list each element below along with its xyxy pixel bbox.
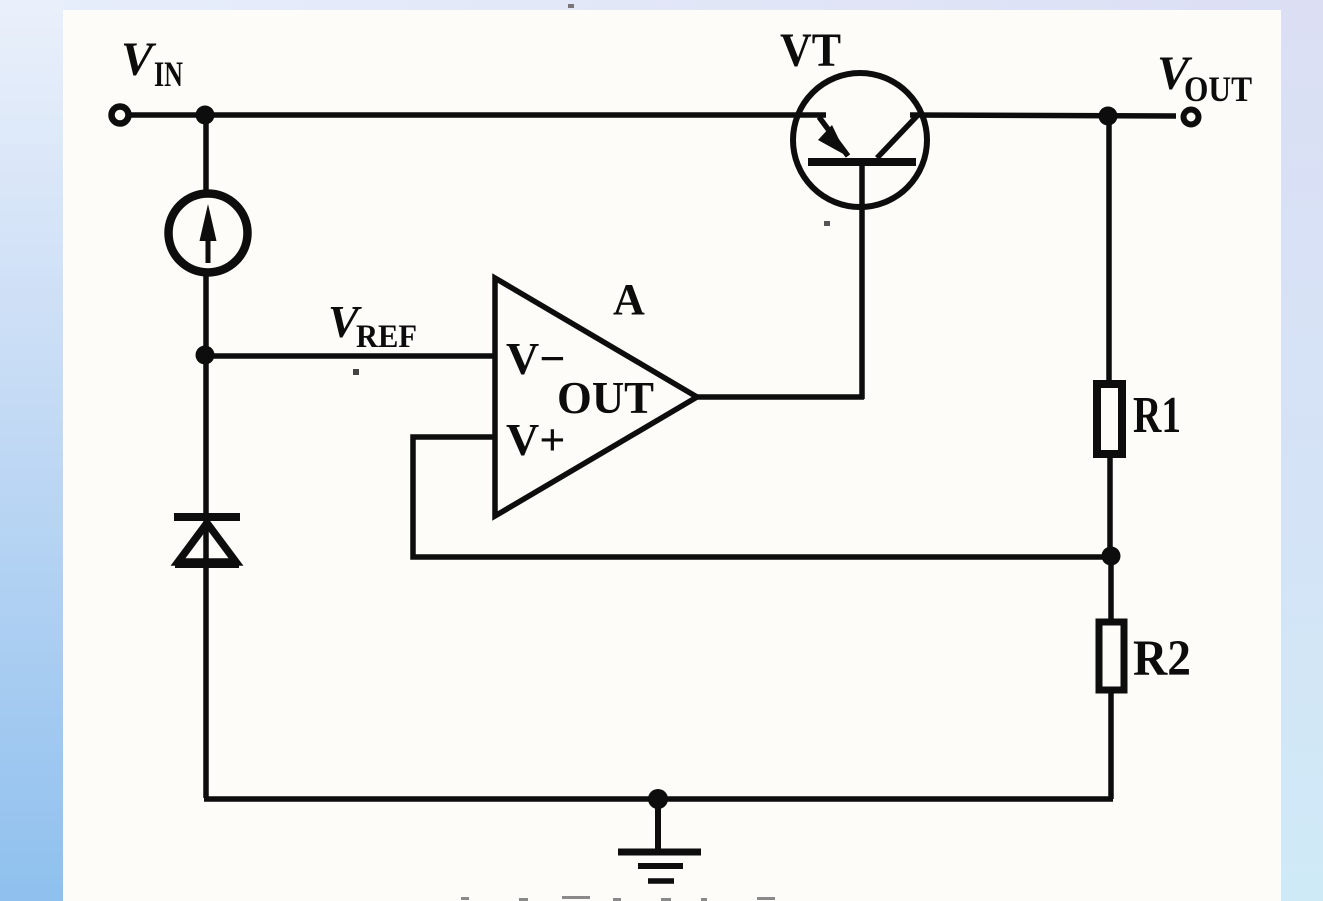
wire: transistor base stem [859,165,865,399]
scan speck below VREF wire [353,369,359,375]
label VOUT [1157,47,1252,109]
svg-text:R1: R1 [1133,387,1181,444]
zener diode D1 triangle (anode, pointing up) [178,523,236,562]
wire: junction down to current source [203,115,209,191]
op-amp A triangle [495,278,697,516]
wire: op-amp output to transistor base [697,394,864,400]
wire: op-amp V+ input from feedback branch [413,437,1111,557]
resistor R2 body [1099,622,1124,690]
svg-text:OUT: OUT [557,372,654,423]
svg-text:R2: R2 [1133,631,1191,687]
svg-text:VT: VT [780,24,841,77]
node: junction of VIN rail and current-source branch [196,106,215,125]
current source I1 (circle) [169,194,248,273]
wire: VREF node to op-amp V- input [205,353,495,359]
svg-text:IN: IN [154,54,183,94]
current source I1 arrow (pointing up) [206,232,211,263]
transistor VT collector diagonal [877,116,917,158]
background top strip [0,0,1323,12]
wire: bottom ground rail [204,796,1113,802]
wire: feedback node down to R2 [1108,557,1114,622]
transistor VT circle [793,73,927,207]
zener diode D1 anode base line [175,560,239,568]
ground symbol bar 1 [618,849,701,856]
background right strip [1280,0,1323,901]
node: feedback junction R1/R2 [1102,547,1121,566]
wire: VOUT junction down to R1 [1106,116,1112,384]
scan marks at bottom edge (cropped text) [461,896,775,901]
terminal VIN (open circle) [112,107,129,124]
wire: current source down to VREF node [203,276,209,348]
wire: top rail from VIN terminal to transistor emitter [130,112,826,118]
transistor VT base bar [808,158,916,166]
node: VOUT junction on top rail [1099,107,1118,126]
svg-text:V+: V+ [506,414,565,465]
ground symbol bar 3 [648,878,674,884]
node: ground junction on bottom rail [648,789,668,809]
label VIN [121,33,183,94]
wire: R1 to feedback node [1107,458,1113,550]
ground symbol bar 2 [638,863,683,869]
terminal VOUT (open circle) [1184,110,1199,125]
node: VREF junction [196,346,215,365]
scan speck top center [568,4,574,8]
ground symbol stem [655,799,661,850]
scan speck near transistor lower-left [824,221,830,226]
zener diode D1 cathode bar [174,513,240,521]
svg-text:REF: REF [356,319,417,355]
background left strip [0,0,64,901]
svg-text:V: V [121,33,157,86]
label VREF [328,296,417,355]
resistor R1 body [1097,384,1122,454]
wire: R2 down to bottom rail [1108,690,1114,799]
transistor VT emitter diagonal with arrow [819,117,848,156]
svg-text:A: A [613,275,645,324]
svg-text:OUT: OUT [1184,69,1252,109]
wire: VREF node down through zener diode to bottom rail [203,355,209,798]
wire: top rail from transistor collector to VOUT terminal [910,115,1176,116]
